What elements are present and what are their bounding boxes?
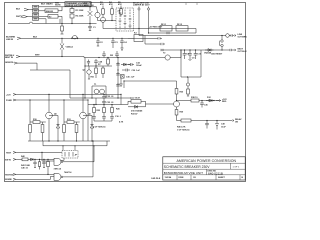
diode D5 (49, 116, 60, 142)
relay K1 coil box (160, 24, 172, 31)
svg-text:C30 .1uF: C30 .1uF (132, 70, 141, 72)
cap C23 (129, 62, 143, 67)
plug P10 (13, 158, 16, 160)
svg-text:100uF: 100uF (136, 65, 143, 67)
svg-text:R1 220K: R1 220K (76, 10, 84, 12)
connector tick (158, 37, 162, 39)
svg-text:D10 1N4148: D10 1N4148 (131, 109, 143, 112)
U1 internals (118, 10, 132, 30)
resistor R17 (103, 105, 106, 115)
wire (98, 20, 117, 22)
wire (16, 178, 51, 180)
relay K2 coil box (176, 24, 188, 31)
svg-text:CAD FILE: CAD FILE (151, 177, 161, 180)
transistor Q7 (174, 101, 180, 110)
cap C20 (116, 62, 120, 65)
wire net80 (124, 80, 177, 82)
cap C3 (111, 38, 118, 48)
net label (149, 27, 163, 29)
wire verts (87, 105, 89, 142)
svg-text:R23: R23 (97, 110, 102, 112)
cap C15 (102, 115, 106, 122)
cap C22 (116, 83, 120, 86)
wire (36, 158, 54, 160)
jumper W1 (167, 32, 169, 34)
cap C5 (102, 51, 106, 58)
wire rail q7top (177, 100, 222, 102)
plug P3 (138, 7, 140, 36)
svg-text:W2: W2 (110, 55, 114, 57)
svg-text:SW IN: SW IN (5, 159, 11, 161)
svg-text:47K: 47K (100, 3, 104, 6)
caution label box (65, 2, 91, 7)
resistor R11 (29, 125, 32, 142)
svg-text:1 OF 1: 1 OF 1 (233, 166, 240, 168)
svg-text:R25: R25 (116, 109, 121, 111)
svg-text:OUT BRN: OUT BRN (238, 36, 248, 38)
transistor Q6 (80, 94, 92, 141)
svg-text:R33 47: R33 47 (131, 112, 138, 115)
svg-text:C28: C28 (99, 62, 104, 64)
svg-text:47K: 47K (118, 3, 122, 6)
svg-text:R38 10: R38 10 (191, 97, 198, 99)
svg-text:PGND: PGND (6, 100, 12, 102)
svg-text:NOTE: NOTE (55, 5, 61, 7)
svg-text:WHT: WHT (35, 54, 40, 56)
wire net K (103, 28, 196, 30)
svg-text:R31: R31 (91, 77, 96, 79)
cap C6 (115, 51, 119, 58)
gate U4A (54, 158, 95, 170)
resistor R2 (70, 13, 84, 24)
arrow LINE OUT (231, 34, 247, 38)
svg-text:10uF: 10uF (221, 126, 226, 128)
node dots (47, 140, 93, 175)
wire rail L1 (21, 37, 158, 39)
wire (18, 63, 71, 98)
cap C19 (215, 121, 226, 130)
title text line2 (164, 165, 240, 169)
svg-text:TESTSW: TESTSW (5, 174, 13, 176)
svg-text:C3: C3 (115, 42, 118, 44)
wire (39, 7, 61, 24)
resistor R13 (64, 100, 80, 125)
GRN label (5, 62, 15, 64)
resistor R16 (93, 105, 96, 115)
svg-text:CB1 RESET: CB1 RESET (211, 54, 223, 56)
resistor R18 (111, 105, 114, 115)
text notes (21, 164, 31, 170)
wire rail MID (145, 43, 161, 45)
wire riser g1 (93, 146, 95, 162)
wire (146, 103, 174, 105)
diode D6 (83, 116, 94, 142)
plug P8 (13, 99, 16, 101)
svg-text:C9: C9 (192, 58, 195, 60)
transistor Q5 (46, 94, 58, 141)
svg-text:C36: C36 (204, 105, 209, 107)
cap C12 (102, 94, 114, 99)
jumper parts (65, 152, 78, 157)
wire (16, 174, 54, 179)
connector tick (161, 43, 165, 45)
wire hop (8, 22, 97, 24)
node dots (61, 23, 122, 57)
IC U1 dashed (116, 8, 134, 31)
svg-text:11/2/94: 11/2/94 (165, 176, 172, 179)
resistor R23 (21, 155, 28, 161)
node dots (29, 94, 104, 101)
cap C13 (102, 100, 114, 105)
cap C8 (183, 50, 190, 59)
SPARE label (5, 178, 12, 181)
svg-text:Q3: Q3 (83, 70, 87, 72)
svg-text:DWN: DWN (179, 177, 184, 179)
relay K1 contact (45, 7, 62, 13)
varistor RV1 (84, 2, 95, 24)
resistor R6 (91, 66, 98, 79)
cap C25 (33, 159, 36, 167)
svg-text:AMERICAN POWER CONVERSION: AMERICAN POWER CONVERSION (177, 159, 237, 163)
transformer T1 (92, 84, 106, 98)
breaker CB1 (211, 36, 223, 56)
cap C2 (96, 38, 103, 46)
wire net J (149, 32, 197, 34)
transistor Q2 (101, 17, 106, 28)
cap C14 (92, 115, 96, 122)
resistor R14 (63, 125, 66, 142)
ground GND2 (119, 79, 123, 87)
wire (195, 29, 197, 34)
resistor R8 (107, 58, 110, 67)
wire rail mid105 (88, 104, 128, 106)
cap C17 (200, 101, 208, 108)
TEST SW label (5, 174, 13, 176)
wire label BLK (41, 2, 53, 5)
arrow out5 (230, 118, 242, 123)
wire rail drv-bottom (28, 140, 110, 142)
svg-text:47K: 47K (109, 3, 113, 6)
plug P11 (13, 173, 16, 175)
plug P5 (17, 37, 21, 39)
wire rail P (16, 93, 121, 95)
svg-text:L2 10uH: L2 10uH (132, 98, 140, 100)
svg-text:C2: C2 (100, 42, 103, 44)
wire drop (144, 36, 146, 45)
cap C24 (122, 69, 141, 72)
zone tick top (186, 3, 197, 6)
wire rail mid66 (85, 65, 112, 67)
wire (16, 158, 22, 160)
svg-text:JUMPER AT 230V: JUMPER AT 230V (133, 3, 150, 6)
resistor R15 (75, 122, 78, 141)
cap C9 (188, 50, 195, 60)
svg-text:C32 .01: C32 .01 (107, 96, 115, 98)
thermistor RT1 chain (186, 77, 189, 96)
svg-text:T1: T1 (94, 84, 97, 86)
fuse circle (222, 34, 231, 38)
wire drop cl (123, 81, 125, 88)
node dots (93, 104, 112, 105)
svg-text:BLK: BLK (33, 36, 38, 38)
svg-text:C38: C38 (221, 124, 226, 126)
vert Q7 feed (175, 81, 184, 101)
title block outline (163, 157, 245, 180)
wire rail NEUT-OUT (161, 49, 230, 51)
terminal block TB1 (33, 5, 39, 20)
node dots (62, 145, 94, 146)
resistor R20 (191, 97, 199, 102)
AC IN label (6, 37, 16, 41)
crystal Y1 (121, 75, 136, 79)
wire (28, 10, 33, 17)
net label W2 (110, 55, 114, 57)
title text line4 (165, 176, 244, 179)
resistor R24 (47, 159, 50, 174)
note text (55, 2, 61, 6)
svg-text:D12: D12 (207, 97, 212, 99)
resistor R5 (61, 24, 64, 35)
node dots (48, 140, 92, 141)
resistor R7 (98, 64, 104, 78)
node dots (71, 6, 90, 7)
node dot (117, 64, 129, 82)
resistor R12 (41, 122, 44, 141)
svg-text:NEUT IN: NEUT IN (5, 57, 14, 59)
svg-text:C4: C4 (124, 41, 127, 44)
connector tick (161, 49, 163, 51)
resistor R3 (100, 2, 104, 17)
resistor R26 (38, 159, 40, 169)
title text company (177, 159, 237, 163)
svg-text:SHEET: SHEET (218, 177, 225, 179)
svg-text:TEST: TEST (6, 152, 12, 154)
node dots (206, 120, 217, 121)
svg-text:MOV V250: MOV V250 (84, 5, 95, 7)
svg-text:JP: JP (75, 155, 78, 157)
wire rail mid121 (94, 120, 112, 122)
transistor Q3 (83, 66, 92, 79)
plug P1 (24, 8, 29, 11)
svg-text:640-0211B: 640-0211B (208, 171, 223, 175)
jumper note text (133, 1, 150, 6)
svg-text:4.7K: 4.7K (119, 121, 124, 124)
node dots (176, 100, 215, 101)
diode D12 (206, 97, 215, 102)
cap C1 (88, 24, 96, 31)
cap C4 (120, 38, 127, 50)
svg-text:Q6: Q6 (88, 114, 92, 116)
svg-text:C40 .01: C40 .01 (21, 166, 29, 169)
svg-text:V250LA: V250LA (66, 46, 74, 49)
svg-text:R30: R30 (180, 92, 185, 94)
relay K3 box (128, 33, 143, 42)
svg-text:LINE IN: LINE IN (6, 39, 14, 41)
plug P6 (16, 55, 20, 57)
wire label (35, 54, 40, 56)
wire rail G (16, 99, 88, 101)
wire net-base (145, 101, 147, 107)
arrow +12 (216, 99, 227, 103)
node dots (34, 152, 48, 160)
wire (87, 100, 89, 105)
svg-text:C16 .1: C16 .1 (115, 116, 122, 118)
wire rail q7bot (177, 120, 231, 122)
svg-text:C35 .1uF: C35 .1uF (126, 77, 135, 79)
resistor R4 (109, 1, 113, 21)
svg-text:ON: ON (235, 121, 239, 123)
wire (60, 7, 97, 24)
svg-text:74HC14: 74HC14 (64, 171, 72, 174)
fuse F2 (71, 36, 78, 39)
svg-text:1 OF 74HC14: 1 OF 74HC14 (93, 126, 106, 129)
transistor Q1 (95, 7, 100, 21)
svg-text:BLK 18AWG: BLK 18AWG (41, 2, 53, 5)
svg-text:+5V REG OUT: +5V REG OUT (149, 27, 163, 29)
cap C18 (205, 121, 209, 129)
svg-text:+12V: +12V (6, 94, 11, 96)
svg-text:C33 .01: C33 .01 (107, 102, 115, 104)
GND label (6, 100, 12, 102)
SW label (5, 159, 11, 161)
TEST label (6, 152, 12, 154)
resistor R22 (177, 119, 191, 131)
diode D7 (128, 105, 146, 115)
svg-text:OUT BLU: OUT BLU (238, 51, 247, 53)
wire rail gates-top (43, 141, 107, 151)
plug P13 (13, 178, 16, 180)
border frame (5, 3, 246, 182)
svg-text:SCHEMATIC BREAKER 230V: SCHEMATIC BREAKER 230V (164, 165, 210, 169)
wire rail N2 (84, 57, 165, 59)
svg-text:R39: R39 (180, 112, 185, 114)
wire riser g2 (92, 141, 94, 177)
svg-text:BLK: BLK (16, 9, 21, 11)
plug P4 (147, 7, 149, 34)
svg-text:R7: R7 (98, 64, 101, 66)
gate U4B (54, 171, 93, 181)
svg-text:BK500/BK500-MI VDE UNIT: BK500/BK500-MI VDE UNIT (164, 171, 203, 175)
diode D9 (28, 158, 36, 161)
NEUT label (5, 55, 15, 59)
resistor R9 (118, 2, 122, 17)
svg-text:WHT: WHT (16, 16, 21, 18)
plug P9 (13, 151, 16, 153)
plug P12 (14, 62, 18, 64)
svg-text:REG: REG (222, 101, 227, 103)
relay K2 contact (48, 15, 62, 24)
node dots (98, 49, 181, 58)
resistor R10 (30, 100, 46, 125)
diode D2 (204, 49, 214, 55)
wire left vert (84, 58, 86, 99)
text cl (93, 109, 124, 129)
ladder vert (117, 58, 119, 99)
resistor R1 (70, 7, 84, 13)
wire rail N1 (20, 57, 84, 58)
+12V label (6, 94, 11, 96)
svg-text:CK: CK (193, 177, 196, 179)
node dots (61, 23, 90, 24)
cap C16 (110, 115, 122, 122)
plug P2 (21, 15, 28, 18)
wire label (33, 36, 38, 38)
diode D3 (121, 63, 129, 66)
cap bank box (181, 50, 201, 77)
resistor R21 (175, 110, 184, 121)
svg-text:1 OF 74HC14: 1 OF 74HC14 (177, 128, 190, 131)
cad note (151, 177, 161, 180)
svg-text:Q5: Q5 (54, 114, 58, 116)
wire (16, 152, 64, 161)
svg-text:74HC14: 74HC14 (54, 167, 62, 170)
connector J1 labels (16, 9, 21, 19)
cap C27 (87, 60, 90, 67)
svg-text:T2: T2 (163, 53, 166, 55)
svg-text:1N4148: 1N4148 (204, 52, 212, 55)
node dot (111, 20, 112, 21)
title text line3 (164, 171, 223, 176)
arrow NEUT OUT (230, 49, 247, 53)
svg-text:B: B (242, 177, 244, 179)
svg-text:KB0023: KB0023 (46, 11, 54, 13)
cap C10 (194, 50, 202, 59)
svg-text:R2 220K: R2 220K (76, 16, 84, 18)
inductor L2 (128, 98, 146, 105)
jumper box JP1 dashed (62, 151, 78, 159)
wire rail cl-bottom (70, 94, 131, 104)
plug P7 (13, 93, 16, 95)
cap C21 (116, 72, 120, 75)
svg-text:R40 4.7K: R40 4.7K (177, 126, 186, 129)
CT T2 (163, 50, 181, 60)
node dots (84, 65, 131, 105)
svg-text:C1: C1 (93, 27, 96, 29)
node dots (184, 49, 196, 77)
varistor RV2 (60, 38, 73, 56)
node dots (138, 28, 149, 34)
svg-text:SPARE: SPARE (5, 178, 12, 181)
cap C26 (42, 159, 45, 167)
wire rail LINE-A (139, 35, 222, 37)
node dots (221, 35, 222, 51)
cap C11 (94, 59, 103, 66)
svg-text:GRN/YEL: GRN/YEL (5, 62, 15, 64)
svg-text:R43 100K: R43 100K (21, 164, 31, 167)
